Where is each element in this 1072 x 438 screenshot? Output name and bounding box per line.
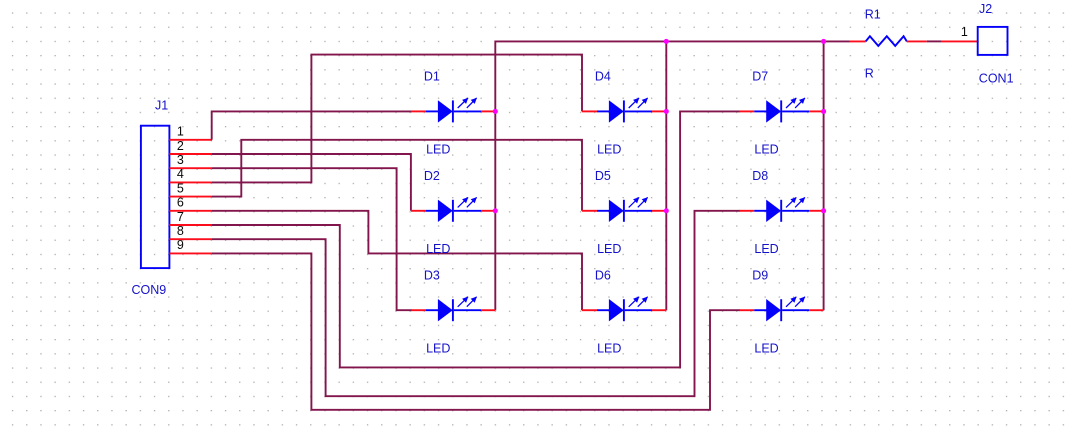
svg-text:8: 8: [177, 224, 184, 238]
svg-text:D8: D8: [752, 169, 768, 183]
J1 pin 3 stub: [169, 167, 212, 169]
LED D6: [582, 297, 666, 322]
svg-text:6: 6: [177, 196, 184, 210]
svg-text:R1: R1: [865, 8, 881, 22]
svg-text:LED: LED: [597, 242, 621, 256]
svg-text:CON9: CON9: [132, 283, 167, 297]
LED D8: [739, 197, 823, 222]
svg-text:1: 1: [961, 25, 968, 39]
svg-text:D2: D2: [424, 169, 440, 183]
J1 pin 8 stub: [169, 238, 212, 240]
svg-text:J2: J2: [979, 2, 992, 16]
svg-text:D9: D9: [752, 268, 768, 282]
svg-text:D6: D6: [595, 268, 611, 282]
J1 pin 7 stub: [169, 224, 212, 226]
connector J2 body: [978, 27, 1008, 55]
junction at top bus x=824: [821, 39, 826, 44]
junction row2 bus x=666: [664, 208, 669, 213]
J1 pin 5 stub: [169, 196, 212, 198]
svg-text:LED: LED: [754, 143, 778, 157]
wire cathode bus column 2: [665, 41, 667, 310]
svg-text:R: R: [865, 67, 874, 81]
svg-text:D5: D5: [595, 169, 611, 183]
wire pin2 to D2 anode: [212, 154, 411, 211]
svg-text:J1: J1: [155, 98, 168, 112]
svg-text:2: 2: [177, 139, 184, 153]
wire pin5 to D5 anode: [212, 140, 582, 211]
svg-text:7: 7: [177, 210, 184, 224]
LED D5: [582, 197, 666, 222]
LED D9: [739, 297, 823, 322]
svg-text:3: 3: [177, 153, 184, 167]
LED D1: [411, 98, 495, 123]
wire pin4 to D4 anode: [212, 55, 582, 183]
wire R1 to J2: [927, 40, 942, 42]
resistor R1: [850, 36, 927, 46]
J1 pin 1 stub: [169, 139, 212, 141]
svg-text:LED: LED: [426, 342, 450, 356]
junction row2 bus x=495: [493, 208, 498, 213]
wire pin7 to D7 anode: [212, 111, 740, 367]
wire pin8 to D8 anode: [212, 211, 740, 396]
J1 pin 2 stub: [169, 153, 212, 155]
svg-text:D3: D3: [424, 268, 440, 282]
svg-text:LED: LED: [426, 242, 450, 256]
junction row1 bus x=666: [664, 109, 669, 114]
LED D3: [411, 297, 495, 322]
svg-text:LED: LED: [597, 143, 621, 157]
LED D7: [739, 98, 823, 123]
wire cathode bus column 1: [495, 41, 666, 310]
svg-text:D7: D7: [752, 70, 768, 84]
svg-text:LED: LED: [754, 242, 778, 256]
junction row1 bus x=824: [821, 109, 826, 114]
wire top net to R1: [666, 40, 850, 42]
LED D2: [411, 197, 495, 222]
connector J2 pin 1 stub: [942, 40, 978, 42]
wire pin3 to D3 anode: [212, 168, 412, 310]
J1 pin 4 stub: [169, 181, 212, 183]
svg-text:9: 9: [177, 238, 184, 252]
svg-text:1: 1: [177, 125, 184, 139]
svg-text:D1: D1: [424, 70, 440, 84]
junction row1 bus x=495: [493, 109, 498, 114]
connector J1 body: [141, 126, 170, 268]
svg-text:5: 5: [177, 181, 184, 195]
wire pin9 to D9 anode: [212, 253, 740, 409]
svg-text:CON1: CON1: [979, 71, 1014, 85]
wire cathode bus column 3: [823, 41, 825, 310]
wire pin1 to D1 anode: [212, 111, 412, 139]
junction at top bus x=666: [664, 39, 669, 44]
wire pin6 to D6 anode: [212, 211, 582, 310]
svg-text:LED: LED: [597, 342, 621, 356]
svg-text:D4: D4: [595, 70, 611, 84]
LED D4: [582, 98, 666, 123]
svg-text:4: 4: [177, 167, 184, 181]
svg-text:LED: LED: [426, 143, 450, 157]
svg-text:LED: LED: [754, 342, 778, 356]
J1 pin 6 stub: [169, 210, 212, 212]
J1 pin 9 stub: [169, 252, 212, 254]
junction row2 bus x=824: [821, 208, 826, 213]
